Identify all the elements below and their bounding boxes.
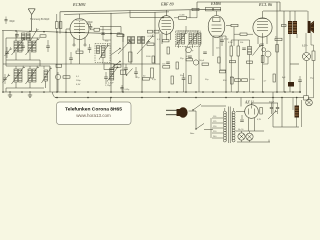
wire mid-left bus y33.5 xyxy=(2,31,123,34)
variable cap VC1 xyxy=(118,42,129,54)
ground G2 xyxy=(29,93,31,95)
IF transformer T2 can xyxy=(176,31,201,47)
coil T1b xyxy=(97,46,100,54)
coil L8 xyxy=(198,33,201,44)
dark blob choke xyxy=(288,82,294,87)
wire det top xyxy=(177,30,199,32)
wire rail x277 xyxy=(276,2,278,92)
svg-text:2M: 2M xyxy=(77,49,80,51)
box under T1 xyxy=(104,64,114,70)
trimmer arrow T2 xyxy=(176,34,186,46)
wire rail x226 xyxy=(225,36,227,92)
ground bus y92 xyxy=(3,91,301,93)
wire rail x155 xyxy=(154,12,156,64)
wire EBF89 anode xyxy=(165,10,167,16)
trimmer arrow antenna xyxy=(31,31,37,41)
resistor R27 xyxy=(171,76,173,84)
svg-text:50k: 50k xyxy=(240,42,243,44)
resistor R18 xyxy=(230,46,232,56)
wire R12 xyxy=(174,17,179,19)
label bot1 xyxy=(120,87,123,89)
wire top bus drop at x197 xyxy=(196,2,198,10)
svg-text:6,3V~: 6,3V~ xyxy=(302,46,309,48)
capacitor C8 xyxy=(203,51,207,53)
tube ECL86 xyxy=(253,18,272,37)
wire ECL86 anode xyxy=(262,11,264,18)
coil L3 xyxy=(14,69,18,82)
label antenna cap xyxy=(5,19,8,21)
resistor R37 xyxy=(56,64,62,67)
wire EBF89 pins xyxy=(161,33,163,45)
svg-text:Trimmung 50-60pF: Trimmung 50-60pF xyxy=(30,18,50,21)
resistor R30 xyxy=(231,77,234,84)
capacitor C-ant xyxy=(15,34,19,36)
coil T1a xyxy=(102,46,106,58)
wire speaker return xyxy=(290,63,299,65)
voltage taps xyxy=(212,117,223,119)
svg-text:ECH81: ECH81 xyxy=(72,2,86,7)
wire rail x284 xyxy=(283,11,285,92)
tube EM84 magic eye xyxy=(208,16,225,38)
resistor R33 xyxy=(114,65,121,67)
resistor R16 xyxy=(167,47,169,54)
wire coupling xyxy=(233,27,235,46)
resistor R9 xyxy=(117,34,124,36)
capacitor C7 xyxy=(188,55,192,57)
resistor R19 xyxy=(237,46,239,56)
resistor R2 xyxy=(40,35,46,37)
wire T1 bottom xyxy=(102,58,104,64)
wire rail x290 xyxy=(289,34,291,92)
resistor R11 xyxy=(63,76,70,78)
trimmer arrow L6 xyxy=(188,34,198,46)
jack J1 xyxy=(265,51,271,57)
wire rail x57 xyxy=(56,33,58,92)
svg-text:50μF: 50μF xyxy=(269,101,275,103)
variable cap VC2 xyxy=(137,42,148,54)
svg-text:0,1M: 0,1M xyxy=(180,15,185,17)
wire rail x123 xyxy=(122,34,124,93)
resistor R23 xyxy=(275,38,282,40)
capacitor C5 xyxy=(166,61,170,63)
coil L1 xyxy=(14,41,18,52)
mains plug xyxy=(178,107,187,117)
switch S2 xyxy=(127,69,133,76)
capacitor C13 electrolytic xyxy=(270,106,273,108)
wire TR2 to speaker xyxy=(296,34,298,38)
wire plug out xyxy=(189,110,197,112)
svg-text:6,3V: 6,3V xyxy=(76,84,81,86)
capacitor C15 470pF xyxy=(220,39,224,41)
trimmer cap T2 xyxy=(5,51,9,53)
resistor R24 xyxy=(312,51,315,61)
svg-text:1M: 1M xyxy=(117,32,120,34)
svg-text:EBF 89: EBF 89 xyxy=(160,2,174,7)
resistor R6 xyxy=(148,30,153,33)
junction dots ground bus xyxy=(2,91,4,93)
electrolytic C6 xyxy=(186,47,192,53)
wire top B+ line xyxy=(197,1,280,3)
coil L4 xyxy=(28,69,32,82)
wire rectifier pins xyxy=(248,118,250,131)
wire lamp net xyxy=(313,61,315,98)
speaker LS xyxy=(308,21,311,33)
svg-text:50+50: 50+50 xyxy=(238,129,243,131)
resistor R26 xyxy=(163,66,170,69)
resistor R5 xyxy=(129,52,133,62)
svg-text:0,1μ: 0,1μ xyxy=(152,79,156,81)
svg-text:60pF: 60pF xyxy=(10,21,16,23)
antenna xyxy=(31,15,33,32)
electrolytic C11 xyxy=(182,77,186,79)
svg-text:50pF: 50pF xyxy=(88,22,94,24)
wire tuner row1 top xyxy=(6,37,40,39)
trimmer arrow L2 xyxy=(26,40,38,55)
wire tuner row1 bottom xyxy=(6,59,40,61)
coil L6 xyxy=(189,33,192,44)
svg-text:1,25μF: 1,25μF xyxy=(105,85,112,87)
wire rail x142 xyxy=(141,36,143,92)
wire rail x66 xyxy=(65,34,67,93)
trimmer arrow L5 xyxy=(42,69,51,83)
wire det verticals xyxy=(185,46,187,92)
capacitor C9 xyxy=(242,47,246,49)
svg-text:25μ: 25μ xyxy=(136,77,139,79)
wire rail x111 xyxy=(110,13,112,92)
wire rect bottom bus xyxy=(236,130,265,132)
svg-text:10n: 10n xyxy=(216,48,219,50)
svg-text:Telefunken Corona 8H65: Telefunken Corona 8H65 xyxy=(65,106,122,112)
svg-text:0,02μ: 0,02μ xyxy=(125,89,130,91)
svg-text:Netz: Netz xyxy=(190,132,194,135)
wire EM84 pins xyxy=(212,37,214,57)
svg-text:EM80: EM80 xyxy=(210,1,221,6)
trimmer arrow L1 xyxy=(12,40,24,55)
wire tuner verticals row1 xyxy=(15,34,17,42)
wire ECH81 cathode xyxy=(79,40,81,65)
capacitor C12 xyxy=(298,79,302,81)
wire tuner verticals row2 xyxy=(15,82,17,88)
resistor R35 xyxy=(143,78,150,81)
switch S1b xyxy=(112,62,121,69)
svg-text:50μ: 50μ xyxy=(180,75,183,77)
capacitor C18 xyxy=(69,57,73,59)
wire upper bus y9.5 xyxy=(60,9,221,12)
capacitor C3 xyxy=(104,76,108,78)
svg-text:50μF: 50μF xyxy=(200,60,205,62)
wire ECH81 pins xyxy=(73,37,75,44)
dial lamp LP2 xyxy=(246,133,253,140)
capacitor C10 xyxy=(134,71,138,73)
resistor R14 xyxy=(214,7,221,11)
resistor R22 xyxy=(240,33,247,35)
wire ECL86 pins xyxy=(257,37,259,45)
resistor R29 xyxy=(220,70,226,73)
wire EM84 grid feed xyxy=(189,10,191,19)
resistor R15 xyxy=(163,40,170,42)
wire ECH81 anode xyxy=(79,14,81,19)
wire left rail x3 xyxy=(2,31,4,93)
resistor R7 xyxy=(147,43,154,45)
wire psu bottom xyxy=(273,126,299,128)
coil L7 xyxy=(194,33,197,44)
resistor R17 xyxy=(176,62,178,69)
switch S4 mains lower xyxy=(196,124,204,130)
resistor R36 xyxy=(151,68,154,78)
junction dots heater bus xyxy=(56,97,58,99)
coil T2b xyxy=(182,33,185,44)
resistor R21 xyxy=(231,24,238,26)
wire tuner row2 top xyxy=(6,65,50,67)
wire B+ from rectifier xyxy=(251,103,253,105)
wire rail x160 xyxy=(159,34,161,93)
dial lamp LP1 xyxy=(238,133,245,140)
ground G1 xyxy=(9,93,11,95)
coil L10 xyxy=(110,68,114,80)
resistor R8 xyxy=(152,56,154,63)
wire rail x131 xyxy=(130,42,132,64)
switch S1a xyxy=(112,49,121,55)
coil L-ant b xyxy=(27,33,31,40)
title box xyxy=(57,102,132,125)
resistor R28 xyxy=(189,76,192,84)
svg-text:50μ: 50μ xyxy=(205,79,208,81)
rectifier tube AZ11 xyxy=(245,105,259,119)
wire TR1 secondary xyxy=(236,111,245,113)
trimmer cap T1 xyxy=(21,45,25,47)
wire ECH81 grid xyxy=(60,28,70,30)
tube ECH81 xyxy=(70,19,89,40)
resistor R10 xyxy=(76,51,83,53)
wire tuner row2 bottom xyxy=(6,87,44,89)
capacitor C14 electrolytic xyxy=(276,106,279,108)
resistor R12 xyxy=(179,16,187,19)
volume pot arrow xyxy=(253,47,260,56)
output transformer TR2 xyxy=(288,21,292,34)
wire upper bus y12 xyxy=(64,12,169,15)
wire TR2 top xyxy=(289,11,291,21)
power transformer TR1 xyxy=(223,111,226,114)
coil T2a xyxy=(177,33,180,44)
wire right psu rails xyxy=(272,92,274,127)
capacitor C-osc 50pF xyxy=(89,26,93,28)
coil L-ant a xyxy=(22,33,26,40)
heater bus y97.5 xyxy=(55,97,304,99)
trimmer arrow L4 xyxy=(26,68,38,84)
svg-text:25μ: 25μ xyxy=(310,78,313,80)
capacitor C17 xyxy=(124,67,128,69)
svg-text:www.hora13.com: www.hora13.com xyxy=(76,113,111,118)
capacitor C16 xyxy=(260,43,264,45)
resistor R25 xyxy=(121,70,126,75)
resistor R13 xyxy=(206,7,213,11)
wire vertical from y9.5 start xyxy=(59,12,61,34)
trimmer arrow L10 xyxy=(107,68,117,82)
wire mid line y64 xyxy=(3,63,160,65)
coil L2 xyxy=(28,41,32,52)
svg-text:ECL 86: ECL 86 xyxy=(258,2,273,7)
resistor R31 xyxy=(273,74,275,82)
IF transformer T1 can xyxy=(95,44,110,63)
svg-text:0,2M: 0,2M xyxy=(228,42,233,44)
field coil xyxy=(295,106,300,118)
switch S3 mains upper xyxy=(193,104,201,110)
dial lamp LP3 xyxy=(303,53,311,61)
svg-text:AZ 11: AZ 11 xyxy=(244,100,254,104)
trimmer arrow L3 xyxy=(12,68,24,84)
coil L9 xyxy=(248,47,252,55)
tube EBF89 xyxy=(159,16,174,35)
coil L5 xyxy=(44,70,48,81)
trimmer cap T3 xyxy=(46,45,50,47)
electrolytic C4 xyxy=(55,74,60,79)
resistor R34 xyxy=(202,63,209,65)
trimmer arrow T1 xyxy=(99,46,108,60)
